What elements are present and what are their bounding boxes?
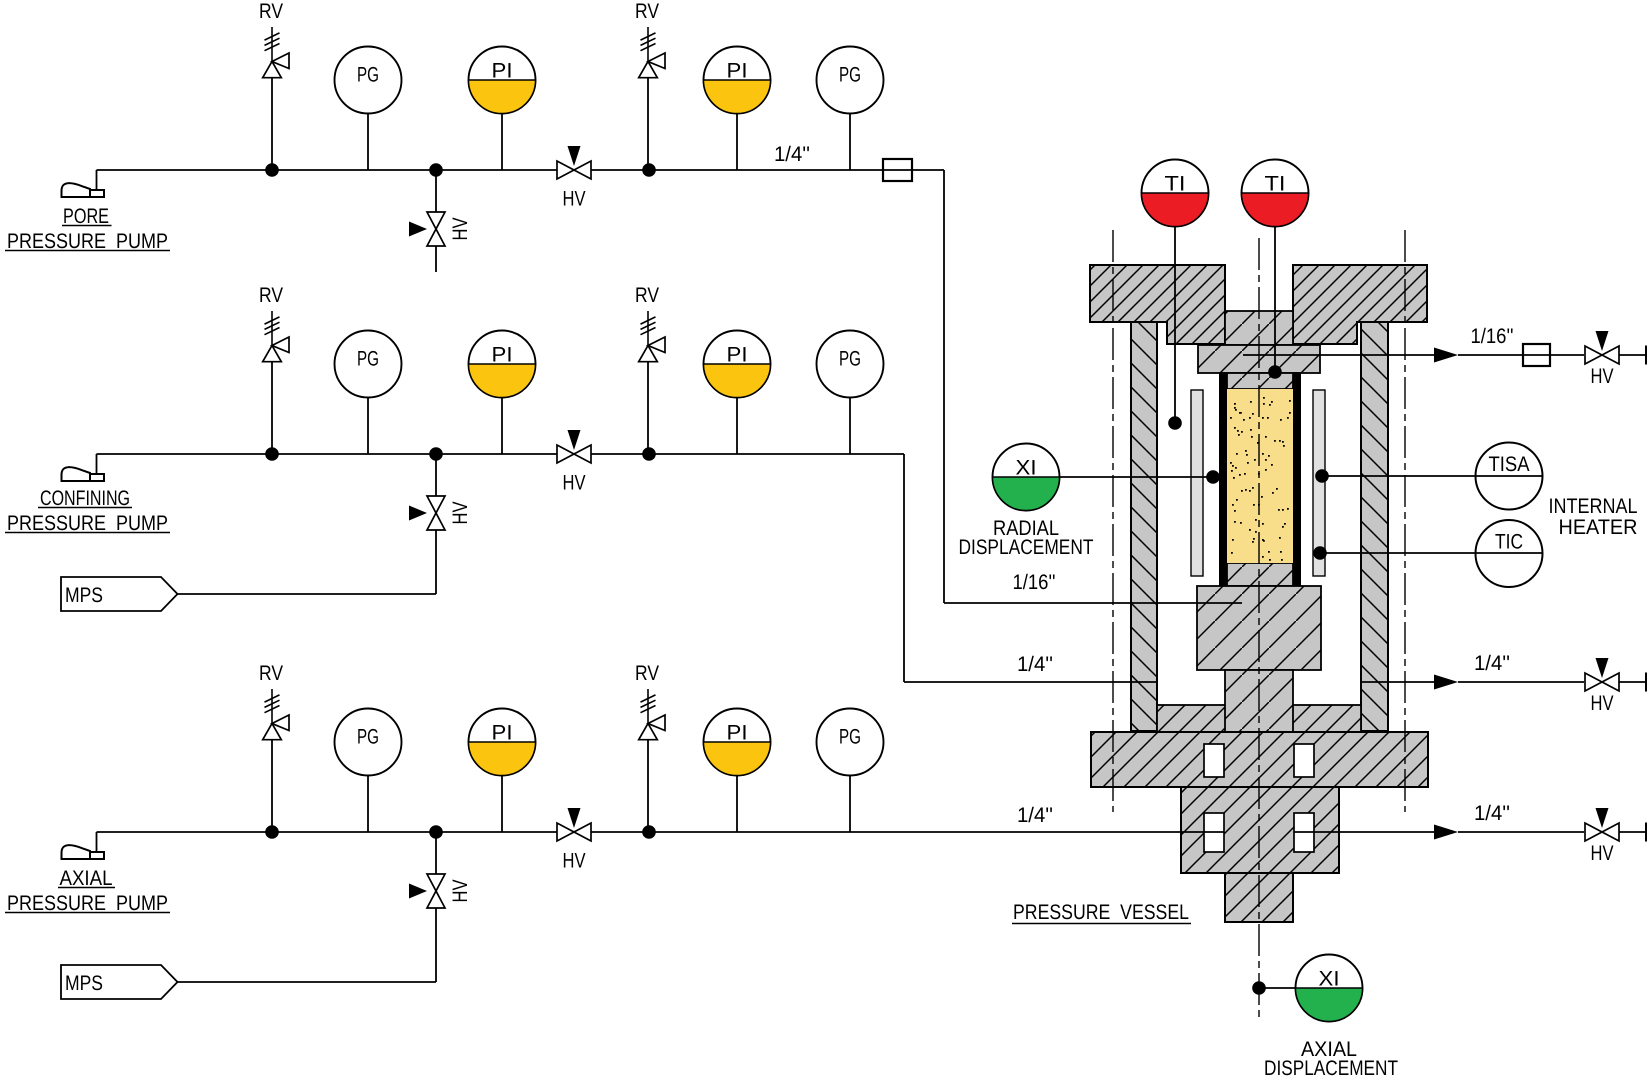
junction: [642, 163, 656, 177]
1/16" outlet line (top right): [1243, 354, 1434, 356]
pressure indicator PI (axial 2): [704, 709, 771, 776]
svg-text:PI: PI: [727, 344, 748, 367]
pressure indicator PI (confining 2): [704, 331, 771, 398]
svg-text:PRESSURE PUMP: PRESSURE PUMP: [7, 230, 168, 253]
pressure vessel top flange left half: [1090, 265, 1225, 344]
line end tick: [1645, 823, 1647, 842]
axial displacement indicator XI: [1296, 955, 1363, 1022]
label PORE: [62, 205, 112, 228]
PG stem: [849, 398, 851, 454]
bottom stem: [1225, 873, 1293, 922]
svg-text:PG: PG: [357, 348, 379, 371]
bottom flange: [1091, 732, 1428, 787]
bolt hole cutouts: [1204, 744, 1314, 852]
hand valve HV (1/16 outlet): [1585, 331, 1619, 388]
svg-text:1/4'': 1/4'': [774, 143, 810, 166]
hand valve HV (confining MPS): [409, 496, 472, 530]
confining pressure pump: [62, 454, 105, 481]
svg-text:MPS: MPS: [65, 584, 103, 607]
temperature indicator TI 2: [1242, 160, 1309, 227]
label PRESSURE PUMP: [5, 512, 170, 535]
PI stem: [736, 398, 738, 454]
label AXIAL DISPLACEMENT: [1264, 1038, 1398, 1080]
vessel left wall: [1131, 322, 1157, 731]
PI stem: [501, 114, 503, 170]
MPS unit (confining): [61, 577, 178, 611]
PG stem: [849, 114, 851, 170]
svg-text:1/16'': 1/16'': [1013, 571, 1056, 594]
pressure indicator PI (confining 1): [468, 331, 535, 398]
vessel right wall: [1361, 322, 1388, 731]
PI stem: [736, 114, 738, 170]
svg-text:PI: PI: [727, 60, 748, 83]
svg-text:1/4'': 1/4'': [1017, 653, 1053, 676]
svg-text:RV: RV: [259, 0, 283, 23]
label CONFINING: [38, 487, 132, 510]
pressure gauge PG (axial 2): [817, 709, 884, 776]
rock sample: [1227, 389, 1293, 563]
pressure gauge PG (confining 2): [817, 331, 884, 398]
line end tick: [1645, 673, 1647, 692]
line end tick: [1645, 346, 1647, 365]
1/4" axial outlet (bottom right): [1294, 831, 1434, 833]
svg-text:PG: PG: [357, 726, 379, 749]
svg-text:PG: PG: [357, 64, 379, 87]
svg-text:HV: HV: [563, 188, 586, 211]
svg-text:RV: RV: [635, 662, 659, 685]
pressure indicator PI (pore 2): [704, 47, 771, 114]
svg-text:HV: HV: [563, 472, 586, 495]
PG stem: [849, 776, 851, 832]
pressure indicator PI (pore 1): [468, 47, 535, 114]
pressure vessel top flange right half: [1293, 265, 1427, 344]
label RADIAL DISPLACEMENT: [959, 517, 1094, 559]
hand valve HV (confining line): [557, 430, 591, 495]
svg-text:PRESSURE VESSEL: PRESSURE VESSEL: [1013, 901, 1189, 924]
svg-text:RV: RV: [635, 0, 659, 23]
svg-text:TISA: TISA: [1489, 453, 1530, 476]
svg-text:RV: RV: [259, 662, 283, 685]
confining MPS branch: [435, 454, 437, 496]
junction: [642, 447, 656, 461]
svg-text:PG: PG: [839, 64, 861, 87]
pressure gauge PG (axial 1): [335, 709, 402, 776]
right displacement transducer bar: [1313, 390, 1325, 576]
svg-text:HV: HV: [1591, 842, 1614, 865]
sample jacket right bar: [1293, 372, 1301, 586]
left displacement transducer bar: [1191, 390, 1203, 576]
svg-text:PI: PI: [492, 344, 513, 367]
svg-text:PI: PI: [727, 722, 748, 745]
pressure gauge PG (pore 1): [335, 47, 402, 114]
relief valve RV (axial 2): [635, 662, 665, 832]
svg-text:TIC: TIC: [1495, 531, 1523, 554]
svg-text:RV: RV: [635, 284, 659, 307]
svg-text:DISPLACEMENT: DISPLACEMENT: [1264, 1057, 1398, 1080]
hand valve HV (pore vent): [409, 212, 472, 246]
top piston assembly: [1198, 311, 1320, 389]
svg-text:HV: HV: [1591, 692, 1614, 715]
TISA line: [1322, 475, 1542, 477]
label PRESSURE VESSEL: [1012, 901, 1191, 924]
svg-text:CONFINING: CONFINING: [40, 487, 130, 510]
inline fitting (pore): [883, 159, 912, 181]
svg-text:MPS: MPS: [65, 972, 103, 995]
vessel centreline: [1258, 238, 1260, 1019]
bottom mid block: [1181, 787, 1339, 873]
temperature indicator TI 1 stem: [1174, 226, 1176, 423]
hand valve HV (axial line): [557, 808, 591, 873]
left centreline: [1112, 230, 1114, 812]
pore line to vessel (1/16"): [943, 170, 945, 603]
svg-text:HV: HV: [449, 218, 472, 241]
TISA indicator: [1476, 443, 1543, 510]
label INTERNAL HEATER: [1549, 495, 1638, 539]
temperature indicator TI 2 stem: [1274, 226, 1276, 372]
svg-text:HV: HV: [1591, 365, 1614, 388]
axial circuit main line: [97, 831, 1225, 833]
pressure gauge PG (pore 2): [817, 47, 884, 114]
svg-text:1/16'': 1/16'': [1471, 325, 1514, 348]
svg-text:HEATER: HEATER: [1559, 516, 1638, 539]
junction: [265, 163, 279, 177]
axial displacement indicator line: [1252, 981, 1266, 995]
junction: [642, 825, 656, 839]
hand valve HV (axial outlet): [1585, 808, 1619, 865]
relief valve RV (axial 1): [259, 662, 289, 832]
axial MPS branch: [435, 832, 437, 874]
svg-text:TI: TI: [1265, 173, 1286, 196]
pore pressure pump: [62, 170, 105, 197]
junction: [429, 163, 443, 177]
svg-text:TI: TI: [1165, 173, 1186, 196]
PG stem: [367, 398, 369, 454]
junction: [265, 825, 279, 839]
bottom closure slab: [1157, 705, 1361, 732]
svg-text:XI: XI: [1319, 968, 1340, 991]
radial displacement indicator XI: [993, 444, 1060, 511]
relief valve RV (pore 2): [635, 0, 665, 170]
radial displacement line: [1059, 476, 1213, 478]
junction: [265, 447, 279, 461]
sample jacket left bar: [1219, 372, 1227, 586]
junction: [429, 447, 443, 461]
svg-text:INTERNAL: INTERNAL: [1549, 495, 1638, 518]
svg-text:PI: PI: [492, 60, 513, 83]
PG stem: [367, 776, 369, 832]
svg-text:1/4'': 1/4'': [1017, 804, 1053, 827]
junction: [429, 825, 443, 839]
bottom piston assembly: [1197, 563, 1321, 732]
svg-text:PG: PG: [839, 348, 861, 371]
MPS unit (axial): [61, 965, 178, 999]
svg-text:XI: XI: [1016, 457, 1037, 480]
label AXIAL: [58, 867, 115, 890]
TIC line: [1320, 552, 1542, 554]
svg-text:PRESSURE PUMP: PRESSURE PUMP: [7, 512, 168, 535]
pore vent branch: [435, 170, 437, 212]
svg-text:HV: HV: [449, 880, 472, 903]
PI stem: [501, 398, 503, 454]
svg-text:1/4'': 1/4'': [1474, 652, 1510, 675]
svg-text:DISPLACEMENT: DISPLACEMENT: [959, 536, 1094, 559]
label PRESSURE PUMP: [5, 892, 170, 915]
PI stem: [501, 776, 503, 832]
svg-text:HV: HV: [563, 850, 586, 873]
hand valve HV (axial MPS): [409, 874, 472, 908]
label PRESSURE PUMP: [5, 230, 170, 253]
svg-text:PRESSURE PUMP: PRESSURE PUMP: [7, 892, 168, 915]
PI stem: [736, 776, 738, 832]
svg-text:PG: PG: [839, 726, 861, 749]
svg-text:RV: RV: [259, 284, 283, 307]
confining line to vessel (1/4"): [903, 454, 905, 682]
svg-text:PORE: PORE: [63, 205, 109, 228]
inline fitting (1/16 outlet): [1523, 344, 1550, 366]
hand valve HV (1/4 middle outlet): [1585, 658, 1619, 715]
relief valve RV (confining 1): [259, 284, 289, 454]
pore circuit main line: [97, 169, 945, 171]
svg-text:HV: HV: [449, 502, 472, 525]
pressure indicator PI (axial 1): [468, 709, 535, 776]
right centreline: [1404, 230, 1406, 812]
1/4" outlet line (middle right): [1361, 681, 1434, 683]
relief valve RV (pore 1): [259, 0, 289, 170]
relief valve RV (confining 2): [635, 284, 665, 454]
axial pressure pump: [62, 832, 105, 859]
hand valve HV (pore line): [557, 146, 591, 211]
temperature indicator TI 1: [1142, 160, 1209, 227]
PG stem: [367, 114, 369, 170]
confining circuit main line: [97, 453, 905, 455]
TIC indicator: [1476, 520, 1543, 587]
svg-text:1/4'': 1/4'': [1474, 802, 1510, 825]
pressure gauge PG (confining 1): [335, 331, 402, 398]
svg-text:PI: PI: [492, 722, 513, 745]
svg-text:AXIAL: AXIAL: [60, 867, 113, 890]
